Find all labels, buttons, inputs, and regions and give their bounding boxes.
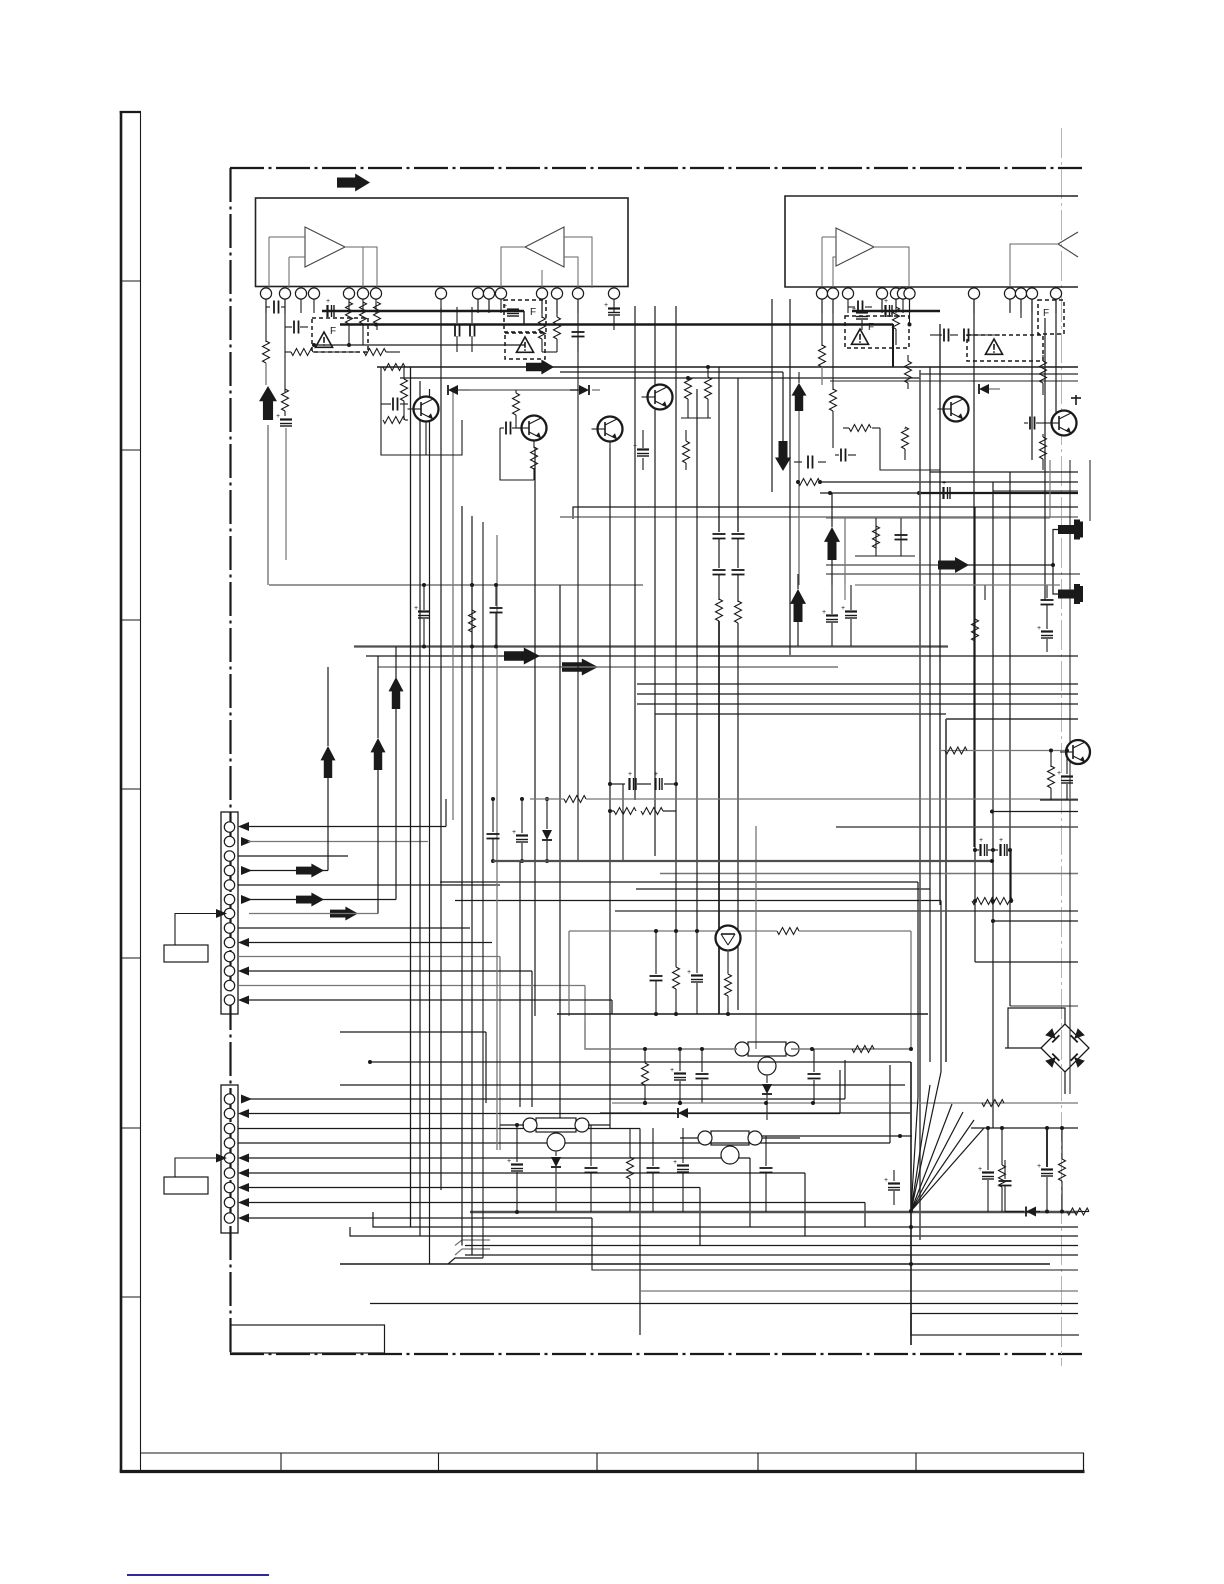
resistor R12 [531, 447, 538, 480]
resistor R18 [830, 389, 837, 448]
connector CN2 pin 2 [224, 1108, 234, 1118]
thick link [322, 310, 524, 312]
signal arrow up J [321, 746, 336, 778]
wire vert extra 1 [1010, 850, 1012, 901]
bus wire y374 gray [920, 373, 1078, 375]
wire U1A in2 [289, 256, 305, 258]
signal arrow half O [1058, 520, 1083, 540]
bus wire y493 [820, 491, 1078, 495]
connector CN2 pin 8 [224, 1197, 234, 1207]
diode D7 [600, 1108, 910, 1118]
electrolytic C47 [503, 303, 519, 316]
electrolytic C16 [852, 306, 868, 330]
connector CN2 pin 9 [224, 1213, 234, 1223]
resistor R3 [285, 349, 313, 356]
transistor Q4 [642, 385, 673, 410]
wire pin stub [895, 300, 897, 314]
svg-text:+: + [1057, 770, 1061, 777]
transistor Q7 [716, 926, 741, 951]
electrolytic C3 [276, 413, 292, 426]
connector CN1 pin 10 [224, 951, 234, 961]
wire [542, 351, 557, 353]
caution F mark D [868, 322, 874, 333]
wire [855, 555, 915, 557]
wire [284, 299, 286, 392]
connector CN2 pin 6 [224, 1168, 234, 1178]
wire vertical v19 [675, 306, 677, 931]
wire vertical v11 [534, 447, 536, 1016]
fold line dash-dot [1061, 128, 1063, 1366]
wire [930, 334, 1000, 336]
wire CN1 row13 [238, 996, 612, 1015]
svg-text:+: + [1037, 625, 1041, 632]
page frame tick [121, 619, 141, 621]
page frame tick [121, 957, 141, 959]
IC U2 pin 10 [1015, 288, 1026, 299]
IC U1 pin 13 [551, 288, 562, 299]
svg-text:+: + [414, 605, 418, 612]
resistor R1 [263, 341, 270, 363]
node [908, 323, 912, 327]
signal arrow up D [824, 527, 840, 560]
wire vertical v32 [1055, 299, 1057, 420]
connector CN1 pin 8 [224, 923, 234, 933]
wire [609, 441, 611, 448]
bus wire y378 [400, 377, 920, 379]
wire emitter mark [1071, 395, 1081, 405]
resistor R7 [374, 302, 381, 330]
resistor R34 [627, 1128, 634, 1212]
resistor R15 [539, 317, 546, 352]
resistor R40 [1067, 1208, 1089, 1215]
capacitor C40 [794, 456, 826, 469]
wire CN2 row4 [238, 1065, 890, 1143]
bus wire y381 gray [830, 380, 1078, 382]
wire pin stub [500, 300, 502, 314]
resistor R17 [819, 345, 826, 385]
transistor Q5 [938, 397, 969, 422]
remote box 2 [164, 1177, 208, 1194]
title block separator [438, 1453, 440, 1472]
wire vertical v21 [718, 367, 720, 532]
svg-text:+: + [633, 443, 637, 450]
title block right edge [1083, 1453, 1085, 1472]
PWB name box [231, 1325, 385, 1353]
wire half-arrow bracket [1051, 530, 1058, 595]
electrolytic C35 [1057, 750, 1073, 800]
connector CN2 pin 3 [224, 1123, 234, 1133]
signal arrow right B [526, 360, 554, 375]
wire U2A in1 [822, 236, 836, 238]
svg-text:+: + [852, 306, 856, 313]
bus wire y372 [560, 371, 783, 373]
svg-text:F: F [1043, 308, 1049, 319]
caution tri C [516, 337, 533, 352]
caution box E [1038, 300, 1064, 334]
bottom wire 5 [340, 1263, 1050, 1265]
bus wire y861 [493, 859, 994, 863]
wire y1014 [557, 1013, 928, 1015]
wire U1A out [345, 247, 377, 288]
wire [909, 299, 911, 326]
capacitor C12 [936, 329, 958, 342]
resistor R5 [346, 302, 353, 345]
signal arrow right N [938, 557, 969, 573]
wire vertical v35 [1009, 472, 1011, 1006]
transistor Q1 [408, 397, 439, 422]
connector CN1 pin 9 [224, 937, 234, 947]
wire bridge top [1008, 1008, 1065, 1024]
wire pin stub [973, 300, 975, 314]
electrolytic C8 [633, 430, 649, 470]
capacitor C23 [732, 507, 745, 568]
signal arrow right L [296, 893, 324, 907]
capacitor C7 [500, 422, 522, 435]
IC U1 pin 12 [536, 288, 547, 299]
diode D5 [762, 1075, 772, 1120]
wire pin stub [556, 300, 558, 314]
wire y1049 gray [585, 1020, 913, 1051]
wire vertical v20 [696, 389, 698, 931]
connector CN1 pin 6 [224, 894, 234, 904]
resistor R13b [681, 365, 712, 418]
IC U2 pin 12 [1050, 288, 1061, 299]
wire y799 gray [530, 798, 1078, 800]
IC U2 pin 9 [1004, 288, 1015, 299]
IC U1 pin 7 [370, 288, 381, 299]
IC U1 pin 14 [572, 288, 583, 299]
connector CN1 outline [221, 812, 238, 1014]
remote box 1 [164, 945, 208, 962]
wire U1B in2 [564, 257, 578, 288]
svg-text:+: + [822, 609, 826, 616]
resistor R39 [1059, 1128, 1066, 1211]
bus wire y882 [440, 882, 918, 1097]
resistor R22 [902, 427, 909, 460]
resistor pair R30 [608, 808, 676, 815]
signal arrow down C [775, 372, 791, 471]
bus wire y389 gray [453, 389, 578, 391]
capacitor C44 [647, 1128, 660, 1212]
wire U1B in1 [564, 237, 592, 288]
wire pin stub [909, 300, 911, 314]
IC U2 pin 3 [842, 288, 853, 299]
wire CN2 row9 [238, 1214, 592, 1265]
bus wire y565 [968, 564, 1053, 566]
resistor R2 [282, 389, 289, 411]
wire vert extra 3 [844, 518, 846, 585]
svg-text:+: + [512, 829, 516, 836]
diode D1 [448, 385, 470, 395]
bus wire y667 gray [378, 666, 838, 668]
connector CN2 pin 1 [224, 1094, 234, 1104]
resistor R33 [725, 950, 732, 1016]
connector CN1 pin 5 [224, 880, 234, 890]
IC U2 pin 2 [827, 288, 838, 299]
wire vertical v3 [429, 389, 431, 1264]
wire [313, 351, 360, 353]
wire vertical v13 [568, 931, 570, 1016]
bus wire y367 [377, 366, 1078, 368]
PWB outline dash-dot top [230, 167, 1082, 169]
transistor Q8 [1060, 740, 1090, 764]
wire CN2 row7 [238, 1183, 700, 1246]
bus wire y324 [340, 323, 893, 326]
capacitor C39 [895, 535, 908, 540]
op-amp U2A triangle [836, 228, 874, 266]
bus wire y719 gray [946, 719, 1078, 1062]
wire CN1 row6 [241, 895, 396, 904]
caution tri D [851, 329, 868, 344]
page frame tick [121, 1127, 141, 1129]
bus wire y585 gray [269, 584, 643, 586]
resistor R25 [469, 585, 476, 646]
wire pin stub [541, 300, 543, 314]
bottom jog c [448, 1258, 483, 1264]
wire [425, 421, 427, 455]
wire pin stub [881, 300, 883, 314]
bus wire y1006 gray [1010, 1005, 1078, 1007]
wire vertical v7 [471, 516, 473, 1255]
capacitor C15 [1024, 417, 1046, 430]
wire pin stub [284, 300, 286, 314]
wire U1A in1 [269, 236, 305, 238]
wire vertical v1 [410, 367, 412, 1227]
IC U2 pin 11 [1026, 288, 1037, 299]
wire arrow E stem [797, 574, 799, 646]
svg-text:+: + [673, 1159, 677, 1166]
gray loop T7 [569, 930, 716, 932]
connector CN1 pin 3 [224, 851, 234, 861]
IC U1 pin 6 [357, 288, 368, 299]
wire arrow I stem [377, 656, 379, 914]
bottom wire 3 [465, 1245, 1078, 1247]
signal arrow up H [389, 677, 404, 709]
wire vertical v25 [789, 299, 791, 655]
signal arrow half P [1058, 584, 1083, 604]
wire vertical v40 [1089, 460, 1091, 521]
svg-text:+: + [276, 413, 280, 420]
wire CN1 row8 [238, 927, 470, 929]
bus wire y694 [637, 693, 1078, 695]
wire CN2 row6 [238, 1169, 805, 1237]
electrolytic C31 [687, 929, 703, 1014]
wire [1020, 299, 1022, 318]
wire y1032 [340, 1032, 486, 1103]
caution tri F [985, 339, 1002, 354]
page frame top cap [120, 111, 141, 113]
capacitor C20 [1041, 585, 1054, 605]
wire vertical v34 [974, 507, 976, 962]
connector CN2 outline [221, 1085, 238, 1233]
IC U2 pin 1 [816, 288, 827, 299]
title block separator [596, 1453, 598, 1472]
page frame tick [121, 449, 141, 451]
bus wire y656 [366, 655, 1078, 657]
resistor R23 [1040, 355, 1047, 395]
connector CN1 pin 11 [224, 966, 234, 976]
caution box B [504, 300, 546, 332]
wire pin stub [300, 300, 302, 314]
IC U2 pin 4 [876, 288, 887, 299]
caution F mark E [1043, 308, 1049, 319]
svg-text:F: F [530, 307, 536, 318]
wire CN1 row3 [238, 855, 348, 857]
svg-text:+: + [503, 303, 507, 310]
bus wire y518 gray [826, 517, 1050, 519]
resistor R16 [554, 299, 561, 352]
wire gray right [855, 584, 1060, 586]
diode D2 [570, 385, 600, 395]
ecap on y493 [942, 480, 950, 499]
resistor R44 [852, 1046, 874, 1053]
wire vertical v6 [461, 506, 463, 1246]
wire [541, 299, 543, 318]
wire [1040, 799, 1078, 801]
IC U1 pin 3 [295, 288, 306, 299]
wire pin stub [1009, 300, 1011, 314]
wire CN1 row10 [238, 957, 500, 1151]
wire y827 right [836, 826, 1078, 828]
resistor R42 [945, 747, 967, 754]
wire pin stub [821, 300, 823, 314]
wire feed fan2 [340, 1084, 905, 1086]
resistor R13 [685, 376, 692, 418]
caution F mark B [530, 307, 536, 318]
op-amp U2B triangle half [1021, 232, 1078, 257]
series res E2 [972, 898, 1013, 905]
resistor R36 [1048, 750, 1055, 800]
wire bridge left [1005, 1047, 1041, 1049]
wire vertical v39 [984, 585, 986, 600]
bottom wire 9 [911, 1313, 1078, 1315]
wire [881, 299, 883, 312]
bus wire y911 [615, 910, 1078, 912]
resistor R37 [982, 1100, 1004, 1107]
bus wire y482 [796, 480, 1078, 484]
resistor R9 [401, 367, 408, 420]
series ecap E1 [973, 837, 1012, 856]
IC U1 pin 11 [495, 288, 506, 299]
resistor R6 [360, 302, 367, 345]
wire U2A out [874, 247, 909, 288]
wire U2A in2 drop [833, 257, 836, 288]
bus wire y889 [636, 888, 930, 890]
wire vertical v29 [973, 299, 975, 847]
op-amp IC U2 outline [785, 196, 1078, 287]
wire CN2 row2 [238, 1070, 840, 1118]
bottom wire 6 [592, 1264, 1078, 1270]
title block separator [757, 1453, 759, 1472]
resistor R26 [972, 619, 979, 641]
capacitor C9 [572, 299, 585, 352]
capacitor C13 [962, 329, 978, 342]
wire feed fan1 [368, 1060, 911, 1064]
diode D3 [979, 384, 1000, 394]
capacitor C11 [848, 301, 872, 314]
bus wire y962 [975, 961, 1078, 963]
wire vertical v38 [844, 585, 846, 600]
capacitor C5 [455, 307, 460, 352]
wire CN1 row12 [238, 986, 585, 1021]
bottom jog b [455, 1249, 490, 1255]
wire vertical v16 [622, 784, 624, 861]
PWB outline dash-dot bottom [230, 1353, 1082, 1355]
node [1045, 1210, 1064, 1214]
wire vertical v9 [496, 535, 498, 1150]
wire vertical v17 [634, 306, 636, 800]
bus wire y646 [354, 645, 948, 647]
wire [284, 411, 286, 416]
resistor R10 [383, 417, 408, 424]
capacitor C1 [266, 301, 285, 314]
title block inner line [140, 1452, 1084, 1454]
diode bridge DB1 [1041, 1024, 1089, 1072]
caution box C [505, 333, 545, 359]
node [422, 583, 498, 649]
wire pin stub [362, 300, 364, 314]
bottom wire 1 [373, 1212, 1078, 1227]
signal arrow up E [790, 589, 806, 622]
node [909, 1225, 913, 1266]
electrolytic C17 [414, 585, 430, 646]
wire vert extra 4 [875, 518, 877, 556]
wire vertical v30 [1031, 299, 1033, 460]
caution box F [967, 335, 1043, 361]
resistor R32 [673, 929, 680, 1016]
svg-text:+: + [999, 837, 1003, 844]
op-amp U1A triangle [305, 227, 345, 267]
diode D6 [551, 1151, 561, 1212]
capacitor C22 [713, 507, 726, 568]
wire U1B out [501, 247, 525, 288]
electrolytic C41 [670, 1049, 686, 1105]
connector CN1 pin 7 [224, 908, 234, 918]
connector CN2 pin 5 [224, 1153, 234, 1163]
wire vertical v2 [419, 381, 421, 1236]
op-amp IC U1 outline [256, 198, 629, 287]
wire [478, 299, 489, 312]
wire vertical v24 [771, 299, 773, 492]
bus wire y507 [573, 507, 1078, 519]
wire [523, 311, 525, 325]
bottom wire 2 [350, 1227, 1078, 1236]
signal arrow up I [371, 738, 386, 770]
thick link 2 [852, 310, 940, 312]
bottom jog a [455, 1240, 490, 1246]
capacitor C2 [285, 321, 308, 334]
wire pin stub [348, 300, 350, 314]
bottom bus ground [470, 1211, 1078, 1213]
page frame tick [121, 280, 141, 282]
wire pin stub [1055, 300, 1057, 314]
PWB outline dash-dot left [229, 168, 231, 1354]
wire vert extra 6 [1049, 460, 1051, 518]
wire vert extra 2 [992, 850, 994, 901]
resistor R45 [642, 1049, 649, 1105]
wire vertical v33 [992, 482, 994, 1128]
bus wire y684 [637, 683, 1078, 685]
IC U1 pin 5 [343, 288, 354, 299]
wire CN1 row5 [238, 884, 500, 886]
IC U1 pin 4 [308, 288, 319, 299]
wire pin stub [265, 300, 267, 314]
capacitor C14 [835, 449, 856, 462]
bus wire y491 [993, 490, 1078, 492]
wire vertical v10 [519, 861, 521, 1107]
resistor R8 [383, 364, 405, 371]
bus wire y472 [930, 471, 1078, 473]
